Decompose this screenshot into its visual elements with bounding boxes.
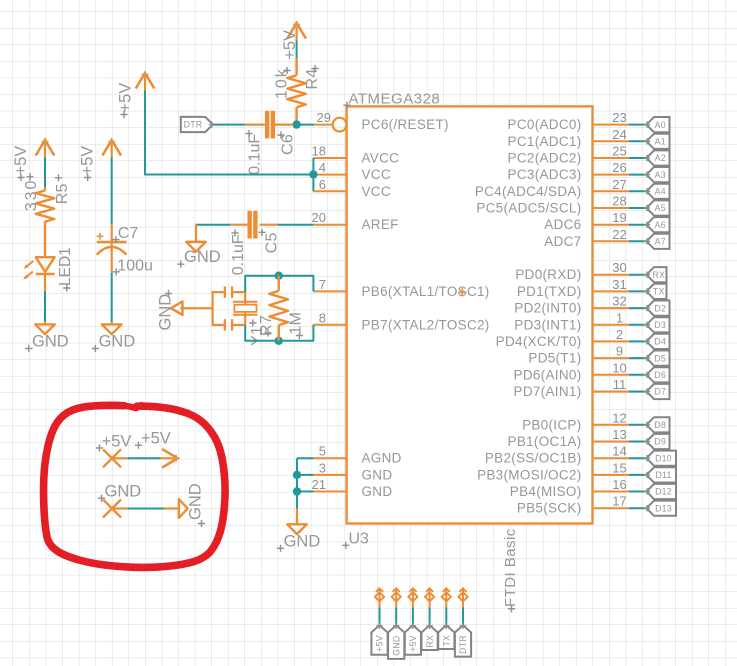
resistor R7 xyxy=(278,276,280,291)
svg-text:U3: U3 xyxy=(349,531,370,548)
pin 9 PD5(T1) stub xyxy=(593,357,630,359)
pin 13 PB1(OC1A) stub xyxy=(593,441,630,443)
wire FTDI pin 6 xyxy=(462,608,464,626)
svg-text:PD3(INT1): PD3(INT1) xyxy=(514,317,581,332)
pin 5 AGND stub xyxy=(313,457,346,459)
svg-text:D12: D12 xyxy=(655,487,672,497)
pin 32 PD2(INT0) stub xyxy=(593,307,630,309)
svg-text:0.1uF: 0.1uF xyxy=(246,134,263,175)
wire resonator loop top xyxy=(245,276,313,292)
IC origin cross xyxy=(458,288,466,296)
connector flag D10 xyxy=(647,451,677,466)
wire FTDI pin 3 xyxy=(412,608,414,626)
connector flag GND (FTDI 2) xyxy=(388,625,404,659)
svg-text:19: 19 xyxy=(612,210,626,225)
connector flag DTR xyxy=(181,117,213,132)
connector flag D11 xyxy=(647,467,677,482)
svg-text:10k: 10k xyxy=(274,67,291,99)
svg-text:A4: A4 xyxy=(655,187,666,197)
connector flag A2 xyxy=(647,150,670,165)
svg-text:PC3(ADC3): PC3(ADC3) xyxy=(508,167,582,182)
wire AGND tie vertical xyxy=(296,458,298,508)
wire to D9 xyxy=(629,441,647,443)
svg-text:AVCC: AVCC xyxy=(362,151,400,166)
connector flag D6 xyxy=(647,367,670,382)
svg-text:10: 10 xyxy=(612,360,626,375)
svg-text:PB4(MISO): PB4(MISO) xyxy=(510,484,582,499)
svg-text:DTR: DTR xyxy=(184,120,203,130)
svg-text:8: 8 xyxy=(319,310,326,325)
wire to pin 21 xyxy=(297,491,313,493)
wire to D6 xyxy=(629,374,647,376)
pin 10 PD6(AIN0) stub xyxy=(593,374,630,376)
svg-text:PC4(ADC4/SDA): PC4(ADC4/SDA) xyxy=(475,184,582,199)
svg-text:TX: TX xyxy=(653,287,665,297)
pin 15 PB3(MOSI/OC2) stub xyxy=(593,474,630,476)
wire FTDI pin 1 xyxy=(379,608,381,626)
wire to D2 xyxy=(629,307,647,309)
junction node GND1 xyxy=(293,471,301,479)
connector flag A4 xyxy=(647,184,670,199)
wire to A7 xyxy=(629,240,647,242)
svg-text:A2: A2 xyxy=(655,153,666,163)
wire junction to pin 29 xyxy=(297,124,314,126)
svg-text:PB6(XTAL1/TOSC1): PB6(XTAL1/TOSC1) xyxy=(362,284,490,299)
svg-text:D6: D6 xyxy=(654,370,666,380)
connector flag A6 xyxy=(647,217,670,232)
wire to pin 5 xyxy=(297,457,313,459)
wire to A6 xyxy=(629,224,647,226)
pin 3 GND stub xyxy=(313,474,346,476)
wire LED1 to ground xyxy=(44,274,46,291)
svg-text:4: 4 xyxy=(319,160,326,175)
wire C5 to AREF pin 20 xyxy=(278,224,314,226)
connector flag A1 xyxy=(647,134,670,149)
connector flag +5V (FTDI 3) xyxy=(405,625,421,654)
ground symbol (C7 branch) xyxy=(102,324,122,334)
svg-text:VCC: VCC xyxy=(362,167,391,182)
resonator Y1 built-in capacitors xyxy=(212,291,214,326)
junction node VCC xyxy=(309,170,317,178)
svg-text:14: 14 xyxy=(612,444,626,459)
connector flag DTR (FTDI 6) xyxy=(455,625,471,656)
wire FTDI pin 2 xyxy=(395,608,397,626)
connector flag RX xyxy=(647,267,667,282)
svg-text:GND: GND xyxy=(362,467,393,482)
svg-text:AGND: AGND xyxy=(362,451,402,466)
connector flag A5 xyxy=(647,200,670,215)
connector flag A0 xyxy=(647,117,670,132)
+5V supply symbol (VCC rail) xyxy=(136,73,155,89)
svg-text:17: 17 xyxy=(612,494,626,509)
svg-text:TX: TX xyxy=(442,635,452,647)
wire +5V rail to VCC xyxy=(145,91,313,175)
svg-text:1: 1 xyxy=(616,310,623,325)
svg-text:20: 20 xyxy=(312,210,326,225)
svg-text:PC2(ADC2): PC2(ADC2) xyxy=(508,151,582,166)
wire FTDI pin 5 xyxy=(445,608,447,626)
svg-text:26: 26 xyxy=(612,160,626,175)
pin 4 VCC stub xyxy=(313,174,346,176)
svg-text:GND: GND xyxy=(284,532,321,550)
svg-text:+5V: +5V xyxy=(141,430,171,448)
svg-text:13: 13 xyxy=(612,427,626,442)
connector flag A7 xyxy=(647,234,670,249)
svg-text:R5: R5 xyxy=(54,183,71,204)
svg-text:23: 23 xyxy=(612,110,626,125)
svg-text:C7: C7 xyxy=(118,225,139,242)
+5V supply symbol (R4 branch) xyxy=(287,23,306,39)
svg-text:PD0(RXD): PD0(RXD) xyxy=(515,267,581,282)
pin 27 PC4(ADC4/SDA) stub xyxy=(593,190,630,192)
svg-text:PD7(AIN1): PD7(AIN1) xyxy=(514,384,582,399)
svg-text:GND: GND xyxy=(391,636,401,656)
pin 23 PC0(ADC0) stub xyxy=(593,124,630,126)
pin 17 PB5(SCK) stub xyxy=(593,507,630,509)
wire ground to resonator xyxy=(180,307,212,309)
svg-text:GND: GND xyxy=(105,482,142,500)
svg-text:FTDI Basic: FTDI Basic xyxy=(502,528,519,607)
svg-text:GND: GND xyxy=(187,483,205,520)
svg-text:2: 2 xyxy=(616,327,623,342)
svg-text:PC5(ADC5/SCL): PC5(ADC5/SCL) xyxy=(476,201,581,216)
ground symbol (right-pointing) xyxy=(179,499,188,518)
pin 29 PC6(/RESET) with inverting bubble xyxy=(314,124,333,126)
svg-text:A6: A6 xyxy=(655,220,666,230)
svg-text:+5V: +5V xyxy=(102,433,132,451)
svg-text:D4: D4 xyxy=(654,337,666,347)
pin 1 PD3(INT1) stub xyxy=(593,324,630,326)
wire +5V to C7 xyxy=(111,158,113,224)
svg-text:7: 7 xyxy=(319,277,326,292)
connector flag D12 xyxy=(647,484,677,499)
svg-text:28: 28 xyxy=(612,194,626,209)
svg-text:D3: D3 xyxy=(654,320,666,330)
red marker circle annotation xyxy=(44,405,226,567)
node +5V net stub (X) xyxy=(103,449,121,467)
wire to A2 xyxy=(629,157,647,159)
pin 14 PB2(SS/OC1B) stub xyxy=(593,457,630,459)
pin 8 PB7(XTAL2/TOSC2) stub xyxy=(313,324,346,326)
svg-text:GND: GND xyxy=(362,484,393,499)
svg-text:GND: GND xyxy=(157,294,175,331)
svg-text:6: 6 xyxy=(319,177,326,192)
connector flag D3 xyxy=(647,317,670,332)
connector flag D2 xyxy=(647,301,670,316)
crystal Y1 xyxy=(244,292,246,325)
svg-text:5: 5 xyxy=(319,444,326,459)
svg-text:PD2(INT0): PD2(INT0) xyxy=(514,301,581,316)
connector flag TX xyxy=(647,284,667,299)
svg-text:PD5(T1): PD5(T1) xyxy=(528,351,581,366)
wire to A4 xyxy=(629,190,647,192)
svg-text:12: 12 xyxy=(612,410,626,425)
junction node XTAL2 xyxy=(275,337,283,345)
FTDI pin 2 header post xyxy=(395,588,397,608)
svg-text:RX: RX xyxy=(425,635,435,648)
connector flag D13 xyxy=(647,501,677,516)
wire C7 to ground xyxy=(111,273,113,322)
svg-text:DTR: DTR xyxy=(458,635,468,654)
connector flag D4 xyxy=(647,334,670,349)
connector flag D7 xyxy=(647,384,670,399)
svg-text:GND: GND xyxy=(32,333,69,351)
svg-text:+5V: +5V xyxy=(12,146,30,176)
svg-text:30: 30 xyxy=(612,260,626,275)
svg-text:ATMEGA328: ATMEGA328 xyxy=(349,91,441,108)
svg-text:15: 15 xyxy=(612,460,626,475)
svg-text:PB2(SS/OC1B): PB2(SS/OC1B) xyxy=(485,451,582,466)
svg-text:D2: D2 xyxy=(654,303,666,313)
svg-text:PB0(ICP): PB0(ICP) xyxy=(522,417,581,432)
pin 19 ADC6 stub xyxy=(593,224,630,226)
svg-text:+5V: +5V xyxy=(79,146,97,176)
wire to D5 xyxy=(629,357,647,359)
wire to D4 xyxy=(629,340,647,342)
pin 31 PD1(TXD) stub xyxy=(593,290,630,292)
wire +5V to R5 xyxy=(44,158,46,188)
svg-text:21: 21 xyxy=(312,477,326,492)
FTDI pin 5 header post xyxy=(445,588,447,608)
wire to D8 xyxy=(629,424,647,426)
pin 26 PC3(ADC3) stub xyxy=(593,174,630,176)
svg-text:ADC7: ADC7 xyxy=(544,234,581,249)
ground symbol (LED branch) xyxy=(35,324,55,334)
svg-text:PD1(TXD): PD1(TXD) xyxy=(517,284,582,299)
svg-text:18: 18 xyxy=(312,144,326,159)
svg-text:ADC6: ADC6 xyxy=(544,217,581,232)
ground symbol (C5) xyxy=(195,224,197,242)
+5V supply symbol (C7 branch) xyxy=(102,140,121,156)
pin 18 AVCC stub xyxy=(313,157,346,159)
FTDI pin 4 header post xyxy=(429,588,431,608)
svg-text:VCC: VCC xyxy=(362,184,391,199)
wire to D13 xyxy=(629,507,647,509)
resistor R4 xyxy=(295,58,297,75)
IC U3 ATMEGA328 body xyxy=(347,106,593,523)
wire to A3 xyxy=(629,174,647,176)
ground symbol (IC) xyxy=(296,509,298,525)
wire to TX xyxy=(629,290,647,292)
pin 12 PB0(ICP) stub xyxy=(593,424,630,426)
wire GND stub to ground arrow xyxy=(112,507,128,509)
pin 16 PB4(MISO) stub xyxy=(593,491,630,493)
connector flag D9 xyxy=(647,434,670,449)
svg-text:3: 3 xyxy=(319,460,326,475)
pin 11 PD7(AIN1) stub xyxy=(593,391,630,393)
pin 21 GND stub xyxy=(313,491,346,493)
svg-text:A1: A1 xyxy=(655,137,666,147)
svg-text:PD6(AIN0): PD6(AIN0) xyxy=(514,367,582,382)
svg-text:11: 11 xyxy=(613,377,627,392)
connector flag D8 xyxy=(647,417,670,432)
svg-text:D8: D8 xyxy=(654,420,666,430)
svg-text:+5V: +5V xyxy=(375,635,385,652)
wire +5V stub to supply arrow xyxy=(112,457,128,459)
svg-text:PC1(ADC1): PC1(ADC1) xyxy=(508,134,582,149)
svg-text:25: 25 xyxy=(612,144,626,159)
svg-text:C5: C5 xyxy=(263,232,280,253)
FTDI pin 1 header post xyxy=(379,588,381,608)
junction node RESET xyxy=(292,120,300,128)
wire DTR to C6 xyxy=(213,124,245,126)
connector flag RX (FTDI 4) xyxy=(422,625,438,650)
svg-text:C6: C6 xyxy=(280,134,297,155)
wire VCC vertical tie xyxy=(312,158,314,191)
wire to D10 xyxy=(629,457,647,459)
pin 28 PC5(ADC5/SCL) stub xyxy=(593,207,630,209)
wire to D3 xyxy=(629,324,647,326)
svg-text:PD4(XCK/T0): PD4(XCK/T0) xyxy=(496,334,582,349)
capacitor C7 (polarized) xyxy=(97,241,127,243)
svg-text:31: 31 xyxy=(612,277,626,292)
svg-text:16: 16 xyxy=(612,477,626,492)
svg-text:GND: GND xyxy=(99,333,136,351)
svg-text:+5V: +5V xyxy=(117,83,135,113)
svg-text:+5V: +5V xyxy=(408,635,418,652)
pin 24 PC1(ADC1) stub xyxy=(593,140,630,142)
svg-text:PB1(OC1A): PB1(OC1A) xyxy=(508,434,582,449)
junction node GND2 xyxy=(293,487,301,495)
wire to pin 3 xyxy=(297,474,313,476)
svg-text:A0: A0 xyxy=(655,120,666,130)
svg-text:PC0(ADC0): PC0(ADC0) xyxy=(508,117,582,132)
svg-text:AREF: AREF xyxy=(362,217,399,232)
connector flag D5 xyxy=(647,351,670,366)
capacitor C6 xyxy=(245,123,265,125)
svg-text:27: 27 xyxy=(612,177,626,192)
svg-text:R4: R4 xyxy=(304,68,321,89)
svg-text:D7: D7 xyxy=(654,387,666,397)
connector flag +5V (FTDI 1) xyxy=(371,625,387,654)
svg-text:GND: GND xyxy=(184,248,221,266)
wire +5V to R4 xyxy=(296,41,298,59)
+5V supply symbol (LED branch) xyxy=(36,140,55,156)
svg-text:A3: A3 xyxy=(655,170,666,180)
pin 7 PB6(XTAL1/TOSC1) stub xyxy=(313,290,346,292)
svg-text:D10: D10 xyxy=(655,453,672,463)
svg-text:LED1: LED1 xyxy=(57,247,74,286)
svg-text:D13: D13 xyxy=(655,503,672,513)
pin 25 PC2(ADC2) stub xyxy=(593,157,630,159)
ground symbol (resonator) xyxy=(171,301,183,315)
svg-text:PB3(MOSI/OC2): PB3(MOSI/OC2) xyxy=(477,467,581,482)
svg-text:PB5(SCK): PB5(SCK) xyxy=(517,501,582,516)
pin 20 AREF stub xyxy=(313,224,346,226)
LED LED1 xyxy=(36,257,55,272)
junction node XTAL1 xyxy=(275,272,283,280)
svg-text:D11: D11 xyxy=(655,470,671,480)
svg-text:RX: RX xyxy=(652,270,665,280)
svg-text:330: 330 xyxy=(23,179,40,212)
svg-text:24: 24 xyxy=(612,127,626,142)
svg-text:22: 22 xyxy=(612,227,626,242)
+5V supply symbol (right-pointing) xyxy=(162,449,178,468)
svg-text:29: 29 xyxy=(317,110,331,125)
wire resonator loop bottom xyxy=(245,325,313,341)
svg-text:1M: 1M xyxy=(288,312,305,335)
wire to RX xyxy=(629,274,647,276)
wire FTDI pin 4 xyxy=(429,608,431,626)
wire to D11 xyxy=(629,474,647,476)
svg-text:9: 9 xyxy=(616,344,623,359)
pin 2 PD4(XCK/T0) stub xyxy=(593,340,630,342)
svg-text:A7: A7 xyxy=(655,237,666,247)
pin 6 VCC stub xyxy=(313,190,346,192)
svg-text:A5: A5 xyxy=(655,203,666,213)
pin 30 PD0(RXD) stub xyxy=(593,274,630,276)
wire C5 to ground drop xyxy=(196,224,230,226)
wire to A5 xyxy=(629,207,647,209)
connector flag A3 xyxy=(647,167,670,182)
svg-text:0.1uF: 0.1uF xyxy=(230,234,247,275)
svg-text:D5: D5 xyxy=(654,353,666,363)
node GND net stub (X) xyxy=(103,500,121,518)
capacitor C5 xyxy=(230,224,247,226)
svg-text:PB7(XTAL2/TOSC2): PB7(XTAL2/TOSC2) xyxy=(362,317,490,332)
FTDI pin 3 header post xyxy=(412,588,414,608)
svg-text:32: 32 xyxy=(612,294,626,309)
FTDI pin 6 header post xyxy=(462,588,464,608)
svg-text:D9: D9 xyxy=(654,437,666,447)
pin 22 ADC7 stub xyxy=(593,240,630,242)
svg-text:100u: 100u xyxy=(117,257,153,274)
connector flag TX (FTDI 5) xyxy=(438,625,454,649)
wire to D12 xyxy=(629,491,647,493)
wire to D7 xyxy=(629,391,647,393)
wire to A1 xyxy=(629,140,647,142)
resistor R5 xyxy=(44,187,46,190)
svg-text:PC6(/RESET): PC6(/RESET) xyxy=(362,117,449,132)
wire to A0 xyxy=(629,124,647,126)
